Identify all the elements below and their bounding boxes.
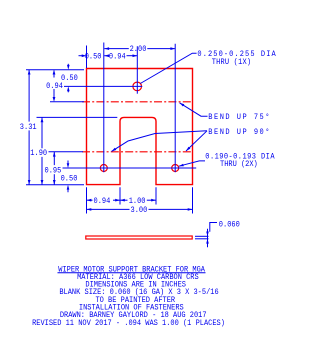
svg-text:0.94: 0.94 (109, 53, 126, 62)
extension line bottom edge left (26, 184, 84, 186)
extension line bend B2 left (49, 151, 84, 153)
dimension 2.00 top (104, 48, 175, 50)
extension line notch-right bottom (155, 187, 157, 204)
dimension 0.94 left (53, 71, 55, 99)
title underline (58, 272, 206, 274)
title line 7 (60, 312, 207, 320)
leader bend up 90 branch A (112, 131, 208, 152)
extension line notch-left bottom (119, 187, 121, 204)
svg-text:BEND UP 75°: BEND UP 75° (208, 112, 271, 122)
dimension 0.50 top (79, 55, 83, 57)
part outline (87, 69, 193, 185)
bend line B1 75deg (82, 101, 193, 103)
leader bend up 75 (180, 103, 208, 116)
extension line hole H2 vertical (103, 43, 105, 173)
svg-text:REVISED 11 NOV 2017 - .094 WAS: REVISED 11 NOV 2017 - .094 WAS 1.00 (1 P… (32, 320, 225, 328)
title line 5 (95, 297, 175, 305)
dimension 1.00 bottom (120, 199, 156, 201)
leader holes 0.190 (179, 161, 205, 166)
note text BEND UP 90 (208, 127, 271, 137)
svg-text:3.31: 3.31 (20, 123, 37, 132)
svg-text:0.50: 0.50 (61, 75, 78, 84)
side view sheet edge (86, 236, 192, 239)
svg-text:0.95: 0.95 (45, 167, 62, 176)
extension line notch top (37, 116, 118, 118)
leader hole H1 0.250 (140, 53, 196, 83)
leader 0.060 (210, 223, 217, 232)
note text 0.250-0.255 DIA (197, 51, 276, 60)
svg-text:0.060: 0.060 (219, 221, 240, 230)
svg-text:THRU (2X): THRU (2X) (220, 161, 258, 170)
svg-text:0.94: 0.94 (46, 82, 63, 91)
extension line hole H3 vertical (174, 44, 176, 173)
title line 4 (59, 289, 218, 297)
note text BEND UP 75 (208, 112, 271, 122)
dimension 0.94 top (104, 55, 137, 57)
svg-text:2.00: 2.00 (130, 45, 147, 54)
title line 8 (32, 320, 225, 328)
svg-text:1.90: 1.90 (30, 150, 47, 159)
svg-text:0.50: 0.50 (85, 53, 102, 62)
extension line bend B1 left (50, 101, 84, 103)
dimension 0.060 thickness (207, 229, 209, 248)
extension line sheet top (195, 235, 209, 237)
title line 2 (77, 274, 199, 282)
hole H1 top 0.250 (133, 82, 142, 91)
hole H2 bottom-left 0.190 (100, 165, 107, 172)
dimension 1.90 left (41, 117, 43, 184)
note text THRU (2X) (220, 161, 258, 170)
dimension 0.50 left upper (67, 64, 69, 93)
note text 0.060 (219, 221, 240, 230)
extension line sheet bottom (195, 238, 209, 240)
extension line top edge left (26, 69, 84, 71)
title line 1 (58, 266, 205, 274)
extension line left-edge top (86, 46, 88, 69)
extension line holes H2 H3 horizontal (63, 167, 197, 169)
extension line left-edge bottom (86, 187, 88, 213)
svg-text:THRU (1X): THRU (1X) (212, 59, 252, 68)
svg-text:3.00: 3.00 (131, 206, 148, 215)
dimension 0.50 left lower (67, 161, 69, 193)
dimension 3.00 bottom (87, 208, 193, 210)
leader bend up 90 branch B (186, 131, 207, 151)
note text 0.190-0.193 DIA (205, 153, 275, 162)
dimension 3.31 left (28, 70, 30, 185)
note text THRU (1X) (212, 59, 252, 68)
svg-text:1.00: 1.00 (129, 197, 146, 206)
extension line hole H1 horizontal (64, 85, 142, 87)
title line 6 (79, 304, 184, 312)
svg-text:0.50: 0.50 (61, 175, 78, 184)
bend line B2 90deg (82, 151, 193, 153)
svg-text:BEND UP 90°: BEND UP 90° (208, 127, 271, 137)
extension line hole H1 vertical (136, 46, 138, 93)
dimension 0.95 left (53, 152, 55, 185)
title line 3 (85, 281, 186, 289)
hole H3 bottom-right 0.190 (172, 165, 179, 172)
extension line right-edge bottom (192, 187, 194, 213)
svg-text:0.94: 0.94 (94, 197, 111, 206)
dimension 0.94 bottom (87, 199, 121, 201)
